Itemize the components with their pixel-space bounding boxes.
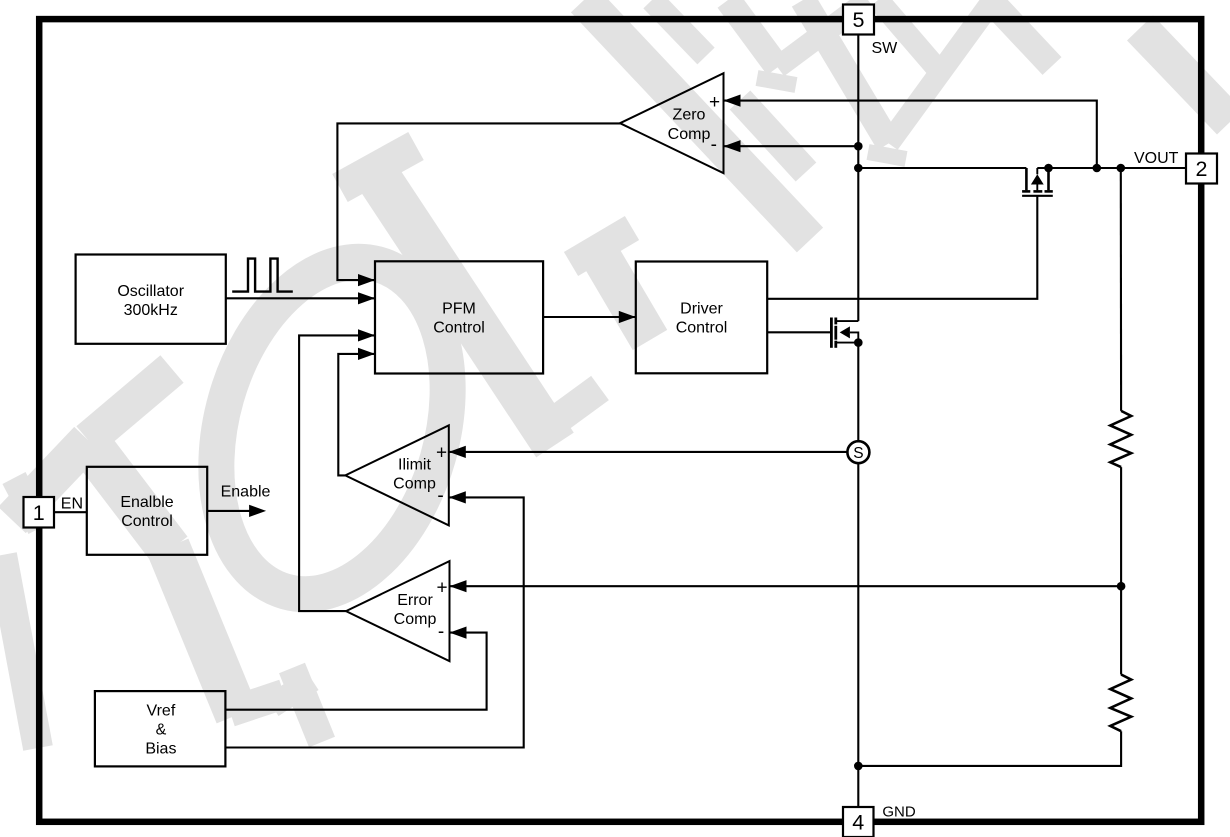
- node S circle: [847, 441, 869, 463]
- svg-text:1: 1: [33, 501, 45, 525]
- svg-text:+: +: [436, 577, 447, 598]
- arrowhead driver control input: [619, 311, 636, 323]
- junction on SW line at zero comp - input: [854, 142, 863, 151]
- junction divider branch on VOUT rail: [1117, 164, 1126, 173]
- svg-text:Comp: Comp: [394, 611, 437, 628]
- wire S down to GND pin4: [857, 463, 859, 807]
- vref bias block: [95, 691, 226, 766]
- resistor R2: [1110, 675, 1131, 732]
- junction divider tap node: [1117, 582, 1126, 591]
- svg-text:GND: GND: [882, 804, 916, 821]
- svg-text:Comp: Comp: [668, 126, 711, 143]
- wire pin1 EN to enable control: [54, 511, 87, 513]
- enable control block: [87, 467, 207, 555]
- wire error comp output to PFM in3: [299, 335, 375, 611]
- oscillator pulse symbol: [232, 259, 293, 292]
- arrowhead ilimit comp + input: [449, 446, 466, 458]
- wire driver to NMOS gate: [767, 331, 831, 333]
- wire NMOS source down to S: [857, 343, 859, 442]
- wire SW pin5 to NMOS drain: [857, 35, 859, 322]
- svg-text:Vref: Vref: [147, 702, 176, 719]
- svg-text:5: 5: [853, 8, 865, 32]
- pin 4 box: [843, 807, 874, 837]
- svg-text:2: 2: [1196, 157, 1208, 181]
- wire vref to error comp - input: [225, 633, 486, 710]
- op-amp zero comp: [620, 73, 724, 173]
- arrowhead ilimit comp - input: [449, 491, 466, 503]
- wire PFM to driver: [543, 316, 636, 318]
- svg-text:-: -: [437, 485, 443, 506]
- svg-text:PFM: PFM: [442, 301, 476, 318]
- driver control block: [636, 262, 767, 374]
- wire error + input from divider tap: [450, 585, 1122, 587]
- svg-text:VOUT: VOUT: [1134, 150, 1179, 167]
- arrowhead PFM input 4: [358, 348, 375, 360]
- wire VOUT rail right segment to pin2: [1037, 167, 1186, 169]
- wire zero comp output to PFM in1: [337, 123, 620, 280]
- svg-text:&: &: [156, 721, 167, 738]
- pin 1 box: [24, 497, 55, 528]
- svg-text:+: +: [436, 442, 447, 463]
- resistor R1: [1110, 411, 1131, 467]
- junction ground rail node: [854, 762, 863, 771]
- arrowhead PFM input 3: [358, 329, 375, 341]
- svg-text:-: -: [711, 135, 717, 156]
- wire zero comp - input: [724, 145, 859, 147]
- arrowhead enable output: [249, 505, 266, 517]
- wire ilimit + input from S: [449, 451, 848, 453]
- junction zero comp + feedback on VOUT rail: [1093, 164, 1102, 173]
- svg-text:Zero: Zero: [673, 107, 706, 124]
- svg-text:Driver: Driver: [680, 301, 723, 318]
- wire vref to ilimit comp - input: [225, 497, 523, 747]
- transistor Q1 PMOS (synchronous rectifier, rotated): [1022, 168, 1053, 196]
- junction NMOS source node: [854, 338, 863, 347]
- svg-text:Control: Control: [676, 320, 728, 337]
- PFM control block: [375, 261, 543, 373]
- svg-text:Comp: Comp: [393, 475, 436, 492]
- svg-text:Control: Control: [433, 320, 485, 337]
- svg-text:Ilimit: Ilimit: [398, 456, 431, 473]
- svg-text:Enable: Enable: [221, 484, 271, 501]
- svg-text:Oscillator: Oscillator: [117, 283, 184, 300]
- svg-text:-: -: [438, 622, 444, 643]
- wire zero comp + input: [724, 101, 1097, 168]
- op-amp error comp: [346, 561, 450, 661]
- svg-text:SW: SW: [872, 40, 899, 57]
- svg-text:S: S: [853, 445, 863, 462]
- svg-text:Enalble: Enalble: [120, 494, 173, 511]
- wire VOUT rail down to R1: [1120, 168, 1122, 411]
- wire enable control output: [207, 510, 253, 512]
- svg-text:Control: Control: [121, 513, 173, 530]
- op-amp ilimit comp: [345, 425, 449, 525]
- svg-text:Error: Error: [397, 592, 433, 609]
- svg-text:300kHz: 300kHz: [124, 302, 178, 319]
- arrowhead error comp + input: [450, 580, 467, 592]
- arrowhead error comp - input: [450, 627, 467, 639]
- svg-text:+: +: [709, 92, 720, 113]
- wire ilimit comp output to PFM in4: [338, 354, 375, 476]
- pin 5 box: [843, 5, 874, 35]
- transistor Q2 NMOS (main switch): [831, 318, 858, 348]
- svg-text:Bias: Bias: [145, 740, 176, 757]
- wire R2 to bottom rail: [858, 731, 1121, 766]
- pin 2 box: [1186, 154, 1217, 184]
- svg-text:EN: EN: [61, 496, 83, 513]
- arrowhead PFM input 1: [358, 274, 375, 286]
- wire R1 to tap: [1120, 467, 1122, 674]
- svg-text:4: 4: [852, 811, 864, 835]
- wire driver to PMOS gate: [767, 197, 1037, 299]
- junction PMOS source on VOUT rail: [1044, 164, 1053, 173]
- wire oscillator to PFM in2: [226, 297, 375, 299]
- arrowhead zero comp - input: [724, 140, 741, 152]
- junction SW line to VOUT rail: [854, 164, 863, 173]
- arrowhead PFM input 2: [358, 292, 375, 304]
- wire SW node to PMOS left (VOUT rail left segment): [858, 167, 1026, 169]
- arrowhead zero comp + input: [724, 95, 741, 107]
- oscillator block: [76, 255, 226, 344]
